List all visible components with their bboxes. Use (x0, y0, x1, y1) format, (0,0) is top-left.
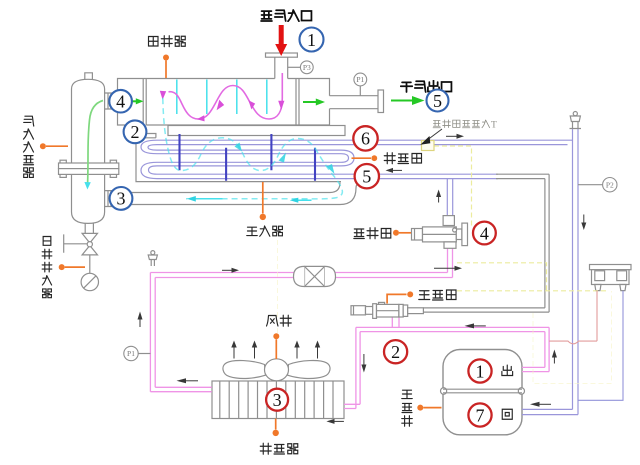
compressor body (443, 350, 522, 435)
svg-text:1: 1 (476, 361, 485, 381)
node 6 red (coil out) (353, 126, 377, 150)
svg-text:2: 2 (391, 342, 400, 362)
label bypass valve 旁通阀 (419, 290, 456, 300)
node 4 blue (separator top) (109, 90, 132, 113)
label pointer evaporator (260, 182, 266, 220)
node 4 red (expansion valve) (473, 222, 496, 245)
evaporator coil left bends (141, 140, 157, 178)
node 5 blue (outlet) (427, 90, 449, 112)
svg-text:4: 4 (480, 223, 489, 243)
wet air inlet riser pipe (275, 57, 288, 78)
label pointer expansion valve (393, 230, 411, 236)
label pointer heat exchange tube (352, 155, 378, 161)
green arrow dry air outlet (391, 96, 425, 105)
tank top nozzle (85, 73, 93, 79)
node 1 blue (inlet) (300, 28, 324, 52)
tank upper outlet port (105, 93, 118, 109)
black left arrow condenser entry right (326, 419, 344, 424)
fan right blade (288, 361, 331, 379)
node 3 blue (separator bottom) (110, 187, 133, 210)
node 5 red (coil in) (355, 164, 379, 188)
label condenser 冷凝器 (260, 443, 298, 454)
cyan duct arrows to separator (187, 196, 312, 203)
yellow capillary from sensing bulb to expansion valve (434, 146, 472, 226)
air return duct to separator (118, 182, 370, 205)
precooler tube lines cyan (177, 80, 267, 115)
pressure gauge P3 (288, 61, 313, 74)
node 1 red (compressor out) (468, 359, 491, 382)
suction line lavender: evaporator top out to compressor return (157, 129, 578, 415)
green flow curve inside separator (84, 101, 103, 190)
label dry air outlet 干气出口 (401, 81, 452, 92)
black down arrow on suction riser (581, 215, 586, 231)
node 2 red (bypass valve) (384, 340, 407, 363)
label pointer precooler (163, 55, 169, 79)
dry air outlet stub pipe (330, 96, 379, 109)
precooler right partition wall (296, 79, 299, 126)
switch red sense line to discharge (549, 291, 597, 344)
bypass valve body (351, 302, 423, 318)
svg-text:1: 1 (307, 30, 316, 50)
svg-text:3: 3 (117, 189, 126, 209)
label evaporator 蒸发器 (247, 226, 283, 236)
green arrow in precooler left channel (132, 98, 144, 104)
black up arrow at expansion riser (436, 190, 441, 203)
sensing bulb label leader arrow (420, 129, 442, 145)
svg-text:P1: P1 (127, 349, 135, 358)
liquid line pink: condenser out, up left riser, to filter drier (150, 248, 452, 391)
black flow arrow right (near bulb) (446, 134, 464, 139)
auto drain valve (bowtie) (64, 233, 98, 255)
node 2 blue (precooler bottom) (124, 120, 147, 143)
svg-text:5: 5 (433, 91, 442, 111)
expansion valve body (412, 216, 468, 249)
label pointer separator (40, 143, 68, 149)
svg-text:P1: P1 (356, 75, 364, 84)
switch blue sense line to suction (578, 291, 623, 401)
label return 回 (502, 409, 512, 419)
label compressor 压缩机 vertical (402, 390, 413, 426)
label pointer fan (273, 333, 279, 359)
black right arrow on liquid line near valve (434, 266, 462, 271)
magenta flow arrowheads (160, 91, 285, 122)
svg-text:3: 3 (273, 390, 282, 410)
tank bottom nozzle (85, 223, 93, 233)
svg-text:P3: P3 (303, 63, 311, 72)
black left arrow on compressor return (530, 402, 551, 407)
black left arrow on discharge to condenser (465, 323, 486, 328)
drain trap stem (89, 255, 91, 273)
svg-text:T: T (491, 121, 497, 131)
fan hub (265, 359, 289, 381)
evaporator coil pass 2 (157, 150, 341, 154)
service schrader valve on suction riser (570, 112, 582, 130)
black down arrow on condenser riser (361, 354, 366, 373)
precooler left partition wall (143, 79, 146, 126)
hot gas discharge pink: compressor to condenser (344, 327, 549, 408)
evaporator coil pass 3 (157, 162, 341, 166)
svg-text:2: 2 (131, 122, 140, 142)
separator tank shell (72, 79, 105, 223)
label pointer bypass valve (387, 291, 413, 303)
label pointer compressor (417, 405, 441, 411)
label separator 气水分离器 vertical (23, 116, 33, 177)
inlet flange (266, 53, 298, 57)
evaporator feed line lavender through node 5 (157, 174, 498, 216)
svg-text:4: 4 (116, 92, 125, 112)
drain trap (circle with diagonal) (81, 273, 98, 290)
filter drier (294, 266, 336, 286)
shelf plate between precooler and evaporator (168, 126, 345, 136)
outlet flange (378, 90, 384, 113)
black up arrow left riser (138, 312, 143, 328)
label heat exchange tube 换热管 (384, 153, 421, 164)
svg-text:P2: P2 (606, 180, 614, 189)
label fan 风机 (267, 315, 292, 326)
evaporator chamber outline (136, 138, 341, 182)
pressure gauge P1 (condenser line) (124, 346, 151, 360)
condenser fins (220, 381, 333, 419)
precooler shell (air heat exchanger box) (118, 79, 330, 126)
label auto drain 自动排水器 vertical (42, 237, 52, 298)
label pointer auto drain (59, 264, 85, 270)
chilled air sine cyan in evaporator (163, 98, 343, 199)
label pointer condenser (273, 419, 279, 437)
black up arrow on discharge riser (552, 350, 557, 364)
evaporator baffles dark blue (180, 134, 316, 181)
tank mid flange with bolts (59, 160, 119, 177)
fan air up-arrows (231, 341, 320, 359)
svg-text:7: 7 (476, 405, 485, 425)
pressure gauge P1 (outlet) (354, 73, 367, 96)
label wet air inlet 湿气入口 (261, 10, 311, 21)
green arrow in precooler outlet chamber (303, 99, 325, 106)
node 7 red (compressor return) (468, 403, 491, 426)
fan left blade (223, 361, 266, 379)
black flow arrow left (node5 line) (386, 168, 403, 173)
tank lower inlet port (105, 191, 118, 207)
bypass grey pipe: feed line to bypass valve (423, 174, 549, 312)
node 3 red (condenser) (266, 389, 288, 411)
wet air wave magenta in precooler (169, 73, 283, 119)
cyan flow arrowheads on sine (235, 143, 335, 175)
black right arrow on liquid line left (222, 268, 239, 273)
pressure switch box (590, 265, 632, 291)
black left arrow condenser feed bottom (177, 378, 199, 383)
label out 出 (502, 365, 513, 375)
svg-text:6: 6 (361, 129, 370, 149)
label precooler 预冷器 (149, 36, 186, 47)
yellow equalizer lines (457, 263, 606, 291)
svg-text:5: 5 (362, 167, 371, 187)
evaporator coil right hairpin (heat exchange tube) (341, 150, 354, 166)
compressor seam band (441, 388, 525, 395)
sensing bulb on suction line (422, 141, 435, 151)
pressure gauge P2 (578, 178, 617, 192)
condenser body (212, 381, 344, 419)
label sensing bulb 膨胀阀感温包T grey (433, 120, 497, 131)
service schrader valve on left riser (148, 251, 157, 266)
bypass tap riser pink (392, 317, 399, 327)
step ledge under node 2 (130, 125, 156, 138)
faint capillary lines right side (278, 240, 612, 384)
wet air inlet red arrow (275, 25, 287, 56)
label expansion valve 膨胀阀 (354, 228, 391, 239)
